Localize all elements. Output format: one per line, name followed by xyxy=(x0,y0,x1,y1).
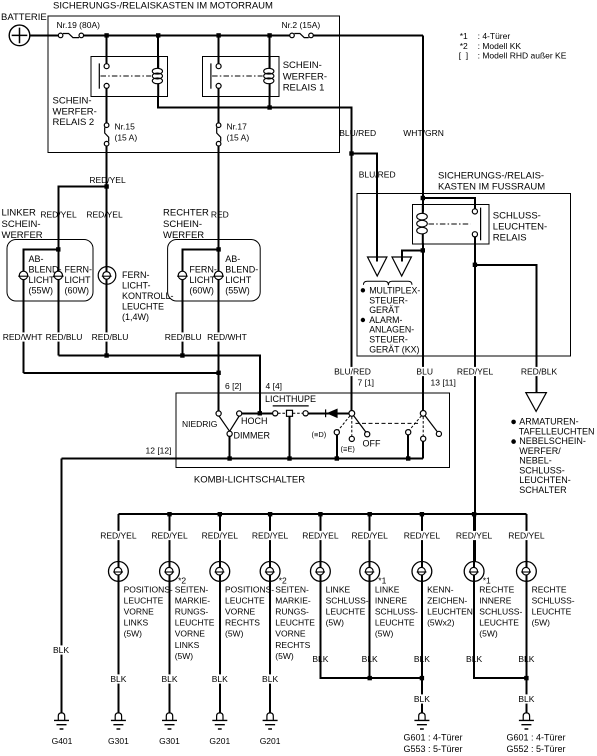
label BLU/RED (pin7) xyxy=(333,367,371,376)
svg-text:G601 : 4-Türer: G601 : 4-Türer xyxy=(404,733,463,743)
rotary switch pole 2 xyxy=(406,411,442,442)
svg-text:Nr.15: Nr.15 xyxy=(115,122,136,132)
svg-text:(5W): (5W) xyxy=(175,651,194,661)
right headlamp housing xyxy=(168,240,261,302)
wire Lichthupe to diode to pivot1 xyxy=(308,412,349,414)
svg-text:BATTERIE: BATTERIE xyxy=(1,12,47,23)
svg-text:*1: *1 xyxy=(460,31,468,41)
fuse Nr.2 (15A) xyxy=(290,33,314,38)
label BLK lamp 5 xyxy=(312,654,330,663)
wire BLU node to pin 13[11] xyxy=(422,250,424,410)
node dimmer on bus xyxy=(227,456,231,460)
svg-text:BLK: BLK xyxy=(53,645,69,655)
svg-text:RED/WHT: RED/WHT xyxy=(3,332,43,342)
svg-text:WERFER-: WERFER- xyxy=(283,72,327,83)
svg-text:G553 : 5-Türer: G553 : 5-Türer xyxy=(404,744,463,754)
bullet Nebelschein xyxy=(511,439,516,444)
left headlamp housing xyxy=(7,240,93,302)
svg-text:BLU/RED: BLU/RED xyxy=(339,128,376,138)
svg-text:SEITEN-: SEITEN- xyxy=(275,584,309,594)
svg-text:MARKIE-: MARKIE- xyxy=(175,595,211,605)
svg-text:RELAIS 2: RELAIS 2 xyxy=(53,117,95,128)
wire drop to lamp 1 xyxy=(117,514,119,561)
wire bus to relay2 contact xyxy=(106,35,108,63)
svg-text:(5W): (5W) xyxy=(479,629,498,639)
svg-text:(5W): (5W) xyxy=(532,618,551,628)
svg-text:ZEICHEN-: ZEICHEN- xyxy=(427,595,467,605)
svg-text:KOMBI-LICHTSCHALTER: KOMBI-LICHTSCHALTER xyxy=(194,474,305,485)
svg-text:SICHERUNGS-/RELAISKASTEN IM MO: SICHERUNGS-/RELAISKASTEN IM MOTORRAUM xyxy=(53,1,273,12)
lamp E4 Seitenmarkierungsleuchte vorne rechts xyxy=(260,562,280,582)
svg-text:G201: G201 xyxy=(209,736,230,746)
lamp E5 linke Schlussleuchte xyxy=(311,562,331,582)
label BLK right group xyxy=(518,694,536,703)
wire bus to relay1 coil xyxy=(269,35,271,68)
wire WHT/GRN drop xyxy=(422,35,424,211)
svg-text:FERN-: FERN- xyxy=(122,270,150,280)
svg-text:SCHALTER: SCHALTER xyxy=(519,485,567,495)
svg-text:BLK: BLK xyxy=(414,694,430,704)
svg-text:RELAIS 1: RELAIS 1 xyxy=(283,82,325,93)
wire relay2 contact to fuse Nr.15 xyxy=(106,88,108,123)
svg-text:*2: *2 xyxy=(460,41,468,51)
label BLK G401 xyxy=(52,645,70,654)
battery symbol xyxy=(9,25,30,46)
rotary switch pole 1 xyxy=(334,411,419,442)
svg-text:ANLAGEN-: ANLAGEN- xyxy=(369,325,414,335)
wire lamp7 through to ground G601/G553 xyxy=(421,581,423,712)
svg-text:(5W): (5W) xyxy=(375,629,394,639)
svg-text:RECHTER: RECHTER xyxy=(163,208,209,219)
svg-text:MARKIE-: MARKIE- xyxy=(275,595,311,605)
label RED/YEL lamp 8 xyxy=(455,531,493,540)
relay SCHLUSSLEUCHTEN-RELAIS xyxy=(413,204,489,244)
svg-text:Nr.2 (15A): Nr.2 (15A) xyxy=(282,20,321,30)
svg-text:RED/YEL: RED/YEL xyxy=(457,367,494,377)
svg-text:WHT/GRN: WHT/GRN xyxy=(403,128,444,138)
label RED/YEL lamp 5 xyxy=(301,531,339,540)
wire Lichthupe square to bus xyxy=(289,416,291,458)
svg-text:G401: G401 xyxy=(52,736,73,746)
svg-text:SCHLUSS-: SCHLUSS- xyxy=(479,607,522,617)
svg-text:LEUCHTE: LEUCHTE xyxy=(326,607,366,617)
node right headlamp junction xyxy=(216,247,220,251)
svg-text:RED/WHT: RED/WHT xyxy=(207,332,247,342)
fuse Nr.19 (80A) xyxy=(58,33,83,38)
svg-text:G201: G201 xyxy=(260,736,281,746)
svg-text:LICHTHUPE: LICHTHUPE xyxy=(265,394,316,404)
svg-text:VORNE: VORNE xyxy=(124,607,155,617)
node lamp bus xyxy=(218,512,222,516)
wire branch to triangle connector 1 xyxy=(352,154,378,253)
node WHT/GRN to relay xyxy=(421,196,425,200)
bullet Alarmanlagen xyxy=(361,318,365,322)
lamp E7 Kennzeichenleuchten xyxy=(412,562,432,582)
label RED/BLU left xyxy=(45,332,83,341)
wire drop to lamp 6 xyxy=(369,514,371,561)
wire to Fernlicht right xyxy=(182,249,218,355)
svg-text:6 [2]: 6 [2] xyxy=(225,381,242,391)
wire BLU/RED node to pin 7[1] xyxy=(351,154,353,411)
ground G201 xyxy=(263,713,278,729)
switch Lichthupe xyxy=(273,410,309,416)
wire low-beam merge (line B) to pin 6[2] xyxy=(24,372,219,374)
label RED/YEL (feed) xyxy=(456,367,494,376)
svg-text:RED/YEL: RED/YEL xyxy=(508,531,545,541)
wire drop to lamp 3 xyxy=(219,514,221,561)
svg-text:LICHT: LICHT xyxy=(225,275,252,285)
wire drop to lamp 9 xyxy=(525,514,527,561)
lamp E3 Positionsleuchte vorne rechts xyxy=(210,562,230,582)
svg-text:VORNE: VORNE xyxy=(225,607,256,617)
wire lamp 1 to ground G301 xyxy=(117,581,119,712)
ground G301 xyxy=(111,713,126,729)
ground G301 xyxy=(162,713,177,729)
svg-text:LINKS: LINKS xyxy=(124,618,149,628)
label BLU (pin13) xyxy=(416,367,434,376)
wire high-beam merge (line A) to pin 4[4] xyxy=(58,356,259,414)
wire ground run to G401 xyxy=(61,459,63,713)
triangle connector 2 xyxy=(392,252,411,276)
wire drop to lamp 4 xyxy=(269,514,271,561)
svg-text:7 [1]: 7 [1] xyxy=(358,378,375,388)
svg-text:SCHLUSS-: SCHLUSS- xyxy=(519,465,565,475)
svg-text:12 [12]: 12 [12] xyxy=(146,446,172,456)
svg-text:RED/YEL: RED/YEL xyxy=(100,531,137,541)
node lamp6 common xyxy=(368,676,372,680)
wire drop to lamp 7 xyxy=(421,514,423,561)
label RED/YEL lamp 2 xyxy=(151,531,189,540)
svg-text:LEUCHTEN-: LEUCHTEN- xyxy=(493,222,547,233)
node low-beam junction xyxy=(216,371,220,375)
svg-text:SCHLUSS-: SCHLUSS- xyxy=(532,595,575,605)
wire pole2 left contact to bus xyxy=(407,435,409,459)
relay SCHEINWERFER-RELAIS 1 xyxy=(202,56,279,96)
svg-text:RED/YEL: RED/YEL xyxy=(40,210,77,220)
svg-text:OFF: OFF xyxy=(363,439,381,449)
svg-text:RECHTE: RECHTE xyxy=(479,584,514,594)
svg-text:LEUCHTE: LEUCHTE xyxy=(122,302,164,312)
label BLK lamp 8 xyxy=(465,654,483,663)
wire after fuse Nr.2 to WHT/GRN drop xyxy=(313,34,423,36)
node headlamp split xyxy=(104,184,108,188)
wire lamp8 to common ground line xyxy=(474,581,526,678)
svg-text:AB-: AB- xyxy=(29,254,44,264)
label RED/WHT right xyxy=(206,332,247,341)
ground G601/G552 xyxy=(519,713,534,729)
svg-text:NIEDRIG: NIEDRIG xyxy=(182,419,217,429)
ground G401 xyxy=(54,713,69,729)
label RED/YEL lamp 6 xyxy=(351,531,389,540)
svg-text:STEUER-: STEUER- xyxy=(369,295,408,305)
svg-text:VORNE: VORNE xyxy=(275,629,306,639)
svg-text:RED/BLK: RED/BLK xyxy=(521,367,558,377)
svg-text:BLU/RED: BLU/RED xyxy=(334,367,371,377)
label BLK lamp 9 xyxy=(518,654,536,663)
relay coil bottom bus y=107.5 xyxy=(158,96,351,108)
label RED/BLK xyxy=(520,367,558,376)
node lamp7 common xyxy=(420,676,424,680)
lamp E8 rechte innere Schlussleuchte xyxy=(464,562,484,582)
fuse/relay box (Motorraum) xyxy=(48,16,340,153)
main bus wire y=35.4 xyxy=(84,34,290,36)
dimmer switch contacts xyxy=(216,411,242,437)
svg-text:FERN-: FERN- xyxy=(189,265,217,275)
svg-text:LINKE: LINKE xyxy=(375,584,400,594)
diode xyxy=(326,409,338,419)
wire battery to fuse Nr.19 xyxy=(30,34,59,36)
svg-text:POSITIONS-: POSITIONS- xyxy=(225,584,274,594)
relay SCHEINWERFER-RELAIS 2 xyxy=(91,56,168,96)
svg-text:TAFELLEUCHTEN: TAFELLEUCHTEN xyxy=(519,426,595,436)
svg-text:(55W): (55W) xyxy=(29,286,54,296)
svg-text:RUNGS-: RUNGS- xyxy=(275,607,309,617)
svg-text:(15 A): (15 A) xyxy=(115,133,138,143)
svg-text:(≡D): (≡D) xyxy=(312,430,327,439)
svg-text:RUNGS-: RUNGS- xyxy=(175,607,209,617)
node left headlamp junction xyxy=(56,247,60,251)
node kontroll on line A xyxy=(104,353,108,357)
node fern right on line A xyxy=(180,353,184,357)
underbrace below triangles xyxy=(363,281,412,285)
svg-text:WERFER-: WERFER- xyxy=(53,107,97,118)
svg-text:AB-: AB- xyxy=(225,254,240,264)
svg-text:(1,4W): (1,4W) xyxy=(122,312,149,322)
node coil/BLU junction xyxy=(421,248,425,252)
lamp Fernlicht right (60W) filament xyxy=(177,271,188,279)
svg-text:RED/BLU: RED/BLU xyxy=(46,332,83,342)
node pole2 contact on bus xyxy=(406,456,410,460)
wire lamp5 to common ground line xyxy=(320,581,422,678)
wire drop to lamp 2 xyxy=(169,514,171,561)
svg-text:RED/YEL: RED/YEL xyxy=(404,531,441,541)
svg-text:: Modell RHD außer KE: : Modell RHD außer KE xyxy=(478,51,567,61)
wire lamp 4 to ground G201 xyxy=(269,581,271,712)
node RED/YEL junction xyxy=(473,263,477,267)
svg-text:G601 : 4-Türer: G601 : 4-Türer xyxy=(507,733,566,743)
node lamp bus xyxy=(318,512,322,516)
svg-text:NEBELSCHEIN-: NEBELSCHEIN- xyxy=(519,436,586,446)
svg-text:LEUCHTEN-: LEUCHTEN- xyxy=(519,475,571,485)
label G201 xyxy=(259,736,281,745)
label BLK lamp 1 xyxy=(110,674,128,683)
svg-text:SCHEIN-: SCHEIN- xyxy=(163,219,202,230)
svg-text:RED/YEL: RED/YEL xyxy=(352,531,389,541)
svg-text:LINKE: LINKE xyxy=(326,584,351,594)
svg-text:LEUCHTE: LEUCHTE xyxy=(275,618,315,628)
svg-text:RED/YEL: RED/YEL xyxy=(456,531,493,541)
node pin4 junction xyxy=(258,411,262,415)
wire dimmer common to bus xyxy=(229,436,231,458)
svg-text:NEBEL-: NEBEL- xyxy=(519,456,552,466)
bullet Armaturen xyxy=(511,420,516,425)
svg-text:VORNE: VORNE xyxy=(175,629,206,639)
svg-text:SCHEIN-: SCHEIN- xyxy=(53,96,92,107)
svg-text:LEUCHTE: LEUCHTE xyxy=(532,607,572,617)
wire to Abblendlicht left xyxy=(24,249,59,372)
svg-text:INNERE: INNERE xyxy=(375,595,407,605)
triangle connector 1 (to Multiplex-Steuergerät) xyxy=(368,252,387,276)
node parking contact on bus xyxy=(335,456,339,460)
wire bus to relay1 contact xyxy=(218,35,220,63)
wire relay switch to RED/YEL node xyxy=(474,237,476,265)
wire relay1 contact to fuse Nr.17 xyxy=(218,88,220,123)
wire pole2 middle contact to bus end xyxy=(422,441,424,458)
svg-text:GERÄT (KX): GERÄT (KX) xyxy=(369,344,419,354)
svg-text:RED/YEL: RED/YEL xyxy=(302,531,339,541)
svg-text:BLU/RED: BLU/RED xyxy=(359,170,396,180)
svg-text:LEUCHTE: LEUCHTE xyxy=(375,618,415,628)
svg-text:LINKER: LINKER xyxy=(2,208,36,219)
fuse Nr.17 (15A) xyxy=(216,123,221,146)
svg-text:BLK: BLK xyxy=(212,674,228,684)
lamp Abblendlicht left (55W) filament xyxy=(18,271,29,279)
lamp Fernlicht left (60W) filament xyxy=(53,271,64,279)
fuse/relay box (Fussraum) xyxy=(357,194,570,356)
ground G601/G553 xyxy=(414,713,429,729)
fuse Nr.15 (15A) xyxy=(104,123,109,146)
node lamp9 common xyxy=(524,676,528,680)
svg-text:FERN-: FERN- xyxy=(65,265,93,275)
svg-text:LEUCHTEN: LEUCHTEN xyxy=(427,607,473,617)
node lamp bus xyxy=(472,512,476,516)
svg-text:BLK: BLK xyxy=(262,674,278,684)
svg-text:BLK: BLK xyxy=(161,674,177,684)
junction dot coil bus xyxy=(267,105,271,109)
label RED/YEL lamp 1 xyxy=(99,531,137,540)
label BLK lamp 4 xyxy=(261,674,279,683)
svg-text:RED/BLU: RED/BLU xyxy=(165,332,202,342)
svg-text:ALARM-: ALARM- xyxy=(369,315,402,325)
svg-text:G301: G301 xyxy=(159,736,180,746)
svg-text:(≡E): (≡E) xyxy=(341,445,356,454)
label RED/YEL lamp 4 xyxy=(251,531,289,540)
wire branch RED/BLK xyxy=(475,265,537,392)
wire lamp6 to common ground line xyxy=(369,581,371,678)
svg-text:RED/YEL: RED/YEL xyxy=(86,210,123,220)
svg-text:MULTIPLEX-: MULTIPLEX- xyxy=(369,286,420,296)
svg-text:LEUCHTE: LEUCHTE xyxy=(124,595,164,605)
svg-text:Nr.19 (80A): Nr.19 (80A) xyxy=(57,20,101,30)
svg-text:SCHLUSS-: SCHLUSS- xyxy=(493,211,541,222)
svg-text:SICHERUNGS-/RELAIS-: SICHERUNGS-/RELAIS- xyxy=(438,171,544,182)
label BLK left group xyxy=(413,694,431,703)
svg-text:(15 A): (15 A) xyxy=(227,133,250,143)
svg-text:(5W): (5W) xyxy=(124,629,143,639)
wire HOCH to Lichthupe xyxy=(242,412,273,414)
wire branch to left headlamp xyxy=(58,187,106,250)
wire pole1 parking contact to bus xyxy=(336,435,338,459)
label BLK lamp 6 xyxy=(361,654,379,663)
label RED/BLU kontroll xyxy=(91,332,129,341)
svg-text:RED/YEL: RED/YEL xyxy=(151,531,188,541)
label RED/WHT left xyxy=(2,332,43,341)
switch common bus wire xyxy=(62,458,424,460)
label G301 xyxy=(158,736,180,745)
label RED/YEL lamp 7 xyxy=(403,531,441,540)
wire relay coil to BLU node xyxy=(422,243,424,250)
svg-text:RED/YEL: RED/YEL xyxy=(202,531,239,541)
svg-text:: Modell KK: : Modell KK xyxy=(478,41,522,51)
svg-text:LICHT: LICHT xyxy=(29,275,56,285)
svg-text:SCHEIN-: SCHEIN- xyxy=(2,219,41,230)
svg-text:ARMATUREN-: ARMATUREN- xyxy=(519,417,578,427)
svg-text:DIMMER: DIMMER xyxy=(234,431,271,441)
svg-text:KENN-: KENN- xyxy=(427,584,454,594)
svg-text:(60W): (60W) xyxy=(189,286,214,296)
node BLU/RED junction xyxy=(349,151,353,155)
svg-text:BLK: BLK xyxy=(110,674,126,684)
junction dots on main bus xyxy=(104,33,108,37)
underline Lichthupe xyxy=(273,405,309,407)
svg-text:(55W): (55W) xyxy=(225,286,250,296)
node lamp bus xyxy=(368,512,372,516)
svg-text:13 [11]: 13 [11] xyxy=(431,378,456,388)
svg-text:KONTROLL-: KONTROLL- xyxy=(122,291,174,301)
svg-text:LICHT: LICHT xyxy=(65,275,92,285)
wire drop to lamp 8 xyxy=(473,514,475,561)
wire relay top feed to switch contact xyxy=(423,198,475,209)
svg-text:(60W): (60W) xyxy=(65,286,90,296)
wire BLU/RED drop to node xyxy=(351,107,353,154)
label BLK lamp 3 xyxy=(211,674,229,683)
svg-text:KASTEN IM FUSSRAUM: KASTEN IM FUSSRAUM xyxy=(438,182,545,193)
svg-text:LEUCHTE: LEUCHTE xyxy=(479,618,519,628)
wire lamp9 through to ground G601/G552 xyxy=(525,581,527,712)
node lichthupe on bus xyxy=(287,456,291,460)
svg-text:(5W): (5W) xyxy=(275,651,294,661)
svg-text:RED/YEL: RED/YEL xyxy=(252,531,289,541)
svg-text:RED/YEL: RED/YEL xyxy=(89,175,126,185)
lamp E9 rechte Schlussleuchte xyxy=(517,562,537,582)
svg-text:LICHT-: LICHT- xyxy=(122,281,151,291)
label G301 xyxy=(107,736,129,745)
arrow connector RED/BLK xyxy=(526,393,547,412)
switch box KOMBI-LICHTSCHALTER xyxy=(176,393,450,468)
lamp E6 linke innere Schlussleuchte xyxy=(360,562,380,582)
svg-text:POSITIONS-: POSITIONS- xyxy=(124,584,173,594)
svg-text:INNERE: INNERE xyxy=(479,595,511,605)
svg-text:RED/BLU: RED/BLU xyxy=(92,332,129,342)
svg-text:STEUER-: STEUER- xyxy=(369,335,408,345)
lamp Fernlicht-Kontrollleuchte (1,4W) xyxy=(98,267,116,285)
svg-text:SEITEN-: SEITEN- xyxy=(175,584,209,594)
svg-text:LINKS: LINKS xyxy=(175,640,200,650)
wire bus to relay2 coil xyxy=(157,35,159,68)
label BLK lamp 7 xyxy=(413,654,431,663)
svg-text:LICHT: LICHT xyxy=(189,275,216,285)
ground G201 xyxy=(212,713,227,729)
svg-text:4 [4]: 4 [4] xyxy=(266,381,283,391)
label G201 xyxy=(209,736,231,745)
svg-text:RECHTS: RECHTS xyxy=(225,618,260,628)
wire fuse17 down to right headlamp node xyxy=(218,146,220,250)
label G401 xyxy=(51,736,73,745)
label BLK lamp 2 xyxy=(161,674,179,683)
wire Abblendlicht right / pin 6[2] run xyxy=(218,249,220,410)
svg-text:RECHTS: RECHTS xyxy=(275,640,310,650)
svg-text:WERFER/: WERFER/ xyxy=(519,446,561,456)
svg-text:BLU: BLU xyxy=(416,367,433,377)
lamp Abblendlicht right (55W) filament xyxy=(213,271,224,279)
svg-text:SCHLUSS-: SCHLUSS- xyxy=(326,595,369,605)
svg-text:GERÄT: GERÄT xyxy=(369,305,400,315)
svg-text:G301: G301 xyxy=(108,736,129,746)
svg-text:RELAIS: RELAIS xyxy=(493,233,527,244)
label RED/YEL lamp 3 xyxy=(201,531,239,540)
svg-text:HOCH: HOCH xyxy=(241,416,268,426)
svg-text:RED: RED xyxy=(211,210,229,220)
